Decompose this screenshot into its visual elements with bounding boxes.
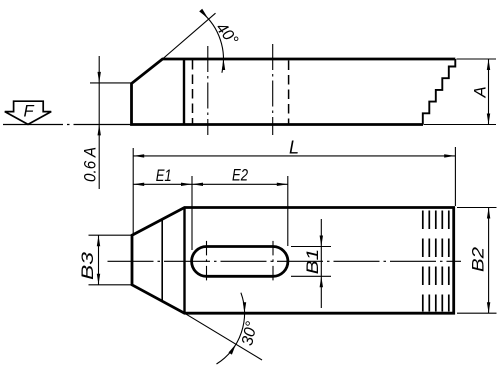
E1/E2 divider extension (slot left end) bbox=[191, 176, 193, 250]
B3 dimension line bbox=[98, 235, 100, 285]
A bottom arrowhead bbox=[487, 114, 490, 125]
svg-text:B2: B2 bbox=[470, 247, 488, 272]
svg-text:A: A bbox=[472, 86, 490, 98]
serrated right end (steps) bbox=[423, 59, 456, 125]
0.6A top arrowhead bbox=[98, 72, 101, 83]
B3 extension line bottom bbox=[89, 284, 132, 286]
40 deg arrowhead on top edge bbox=[222, 59, 225, 70]
svg-text:E2: E2 bbox=[232, 167, 248, 185]
B3 extension line top bbox=[89, 234, 132, 236]
main centerline bbox=[108, 260, 462, 262]
E2 dimension line bbox=[192, 183, 288, 185]
A extension line top bbox=[457, 58, 497, 60]
L left extension line bbox=[132, 148, 134, 234]
B1 extension line top bbox=[291, 246, 331, 248]
A top arrowhead bbox=[487, 59, 490, 70]
30 deg taper extension line bbox=[185, 313, 263, 360]
B1 extension line bottom bbox=[291, 275, 331, 277]
chamfer edge line bbox=[161, 219, 163, 301]
taper end edge bbox=[183, 208, 185, 314]
30 deg arrowhead on taper line bbox=[229, 344, 236, 355]
L left arrowhead bbox=[133, 154, 144, 157]
hidden line: slot left end bbox=[192, 60, 194, 124]
slot left arc centerline bbox=[206, 241, 208, 283]
L right extension line bbox=[454, 147, 456, 206]
B2 extension line top bbox=[457, 207, 497, 209]
40 deg arrowhead on chamfer line bbox=[199, 9, 208, 18]
B3 top arrowhead bbox=[97, 235, 100, 246]
B1 dimension line bbox=[320, 219, 322, 308]
L right arrowhead bbox=[444, 154, 455, 157]
serration hidden lines (5 columns) bbox=[422, 211, 424, 312]
slot (obround) bbox=[192, 246, 288, 276]
E1 right arrowhead bbox=[181, 183, 192, 186]
E1 left arrowhead bbox=[133, 183, 144, 186]
hidden line: slot right end bbox=[288, 61, 290, 124]
40 deg chamfer extension line bbox=[163, 13, 216, 59]
edge line of 30 deg taper (side view) bbox=[183, 59, 185, 125]
0.6A dimension line bbox=[98, 56, 100, 189]
E2 left arrowhead bbox=[192, 183, 203, 186]
30 deg arrowhead on bottom edge bbox=[243, 302, 246, 313]
A extension line bottom bbox=[424, 124, 496, 126]
force axis centerline bbox=[3, 124, 132, 126]
svg-text:B1: B1 bbox=[304, 249, 322, 275]
E2 right extension (slot right end) bbox=[287, 176, 289, 246]
svg-text:E1: E1 bbox=[156, 167, 172, 185]
E1 dimension line bbox=[133, 183, 192, 185]
B1 top arrowhead bbox=[320, 236, 323, 247]
centerline: slot left arc axis bbox=[207, 46, 209, 135]
30 deg dimension arc bbox=[217, 293, 245, 364]
centerline: slot right arc axis bbox=[272, 44, 274, 135]
plan outline bbox=[132, 208, 454, 314]
force arrow F symbol bbox=[5, 101, 51, 124]
0.6A extension line bbox=[90, 82, 132, 84]
B3 bottom arrowhead bbox=[97, 274, 100, 285]
svg-text:F: F bbox=[23, 103, 34, 121]
B2 bottom arrowhead bbox=[487, 302, 490, 313]
A dimension line bbox=[488, 59, 490, 125]
side view outline bbox=[132, 59, 456, 125]
svg-text:B3: B3 bbox=[79, 251, 97, 280]
B2 top arrowhead bbox=[487, 208, 490, 219]
B2 dimension line bbox=[488, 208, 490, 314]
L dimension line bbox=[133, 155, 455, 157]
0.6A bottom arrowhead bbox=[98, 124, 101, 135]
slot right arc centerline bbox=[272, 241, 274, 283]
svg-text:0.6 A: 0.6 A bbox=[82, 147, 100, 182]
40 deg dimension arc bbox=[202, 12, 224, 72]
B2 extension line bottom bbox=[457, 312, 497, 314]
E2 right arrowhead bbox=[277, 183, 288, 186]
svg-text:L: L bbox=[289, 138, 299, 158]
B1 bottom arrowhead bbox=[320, 276, 323, 287]
